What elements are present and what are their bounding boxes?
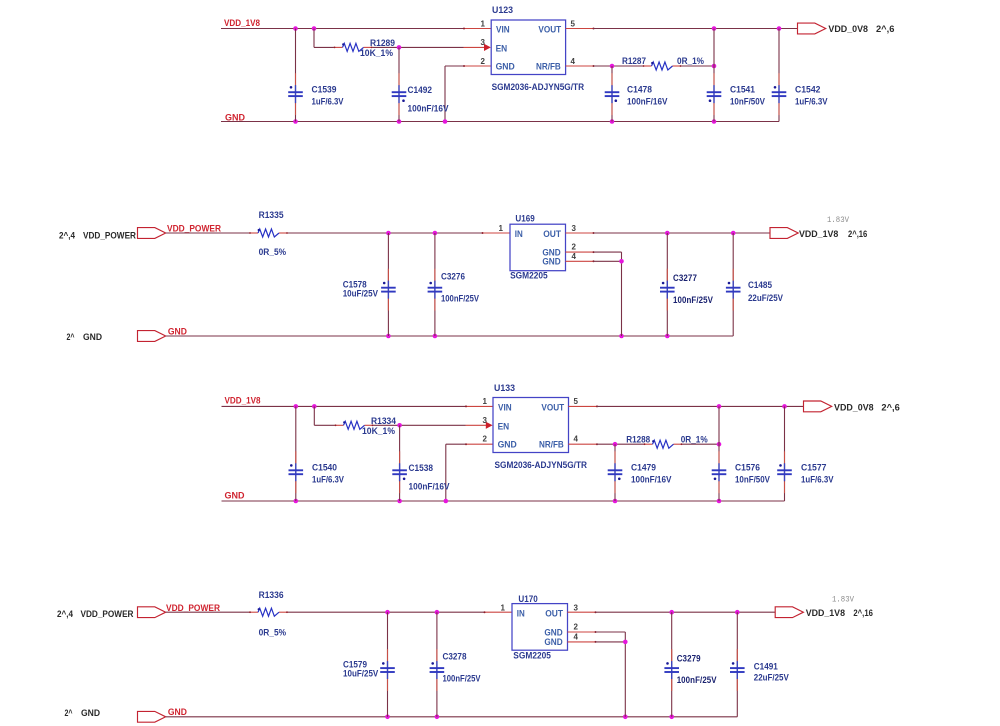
junction on GND rail: [386, 334, 391, 339]
svg-text:2^: 2^: [65, 708, 74, 718]
svg-text:OUT: OUT: [543, 229, 561, 240]
wire pin2 GND stub: [568, 631, 596, 633]
svg-text:3: 3: [483, 416, 488, 425]
wire net VDD_0V8: [597, 405, 804, 407]
svg-text:U123: U123: [492, 5, 513, 15]
wire C3278 vertical: [436, 612, 438, 717]
junction on GND rail: [293, 119, 298, 124]
svg-text:10nF/50V: 10nF/50V: [730, 97, 765, 107]
svg-text:C1479: C1479: [631, 463, 656, 473]
junction: [385, 610, 390, 615]
svg-text:GND: GND: [498, 440, 517, 451]
svg-text:VDD_1V8: VDD_1V8: [806, 608, 845, 618]
svg-text:C1478: C1478: [627, 85, 652, 95]
capacitor C1479 symbol: [608, 451, 623, 493]
svg-text:C1577: C1577: [801, 463, 827, 473]
svg-text:R1336: R1336: [259, 590, 284, 600]
svg-text:3: 3: [574, 603, 579, 612]
svg-text:C1492: C1492: [408, 85, 433, 95]
svg-text:0R_1%: 0R_1%: [677, 56, 704, 66]
svg-text:3: 3: [481, 38, 486, 47]
junction: [735, 610, 740, 615]
svg-text:100nF/16V: 100nF/16V: [408, 104, 449, 114]
wire C3279 vertical: [671, 612, 673, 717]
junction: [613, 442, 618, 447]
svg-text:VIN: VIN: [498, 403, 512, 414]
svg-text:VDD_1V8: VDD_1V8: [225, 396, 261, 406]
wire pin5 VOUT stub: [569, 405, 598, 407]
junction: [386, 231, 391, 236]
wire net VDD_1V8 top rail: [221, 28, 464, 30]
wire GND bottom rail: [222, 500, 785, 502]
svg-text:10K_1%: 10K_1%: [362, 426, 395, 436]
svg-text:2: 2: [572, 243, 577, 252]
junction on GND rail: [444, 499, 449, 504]
capacitor C1579 symbol: [380, 649, 395, 691]
junction: [312, 404, 317, 409]
wire pin2 GND stub of U133: [466, 443, 494, 445]
capacitor C1540 symbol: [289, 451, 304, 493]
svg-text:2^,4: 2^,4: [57, 609, 73, 619]
wire pin5 VOUT stub: [566, 28, 594, 30]
wire pin1 stub of U133: [466, 405, 494, 407]
svg-text:C1491: C1491: [754, 661, 778, 671]
svg-text:100nF/16V: 100nF/16V: [627, 97, 668, 107]
capacitor C3278 symbol: [430, 649, 445, 691]
capacitor C1577 symbol: [777, 451, 792, 493]
svg-text:1: 1: [499, 224, 504, 233]
svg-text:U169: U169: [515, 214, 534, 224]
capacitor C1542 symbol: [772, 73, 787, 115]
junction: [312, 26, 317, 31]
junction: [777, 26, 782, 31]
svg-text:0R_5%: 0R_5%: [259, 627, 287, 637]
svg-text:4: 4: [571, 57, 576, 66]
wire GND bottom rail: [166, 335, 733, 337]
svg-text:OUT: OUT: [545, 608, 563, 619]
junction on GND rail: [613, 499, 618, 504]
junction: [293, 26, 298, 31]
wire pin2 to corner: [594, 251, 622, 253]
svg-text:C3279: C3279: [677, 653, 701, 663]
svg-text:C1541: C1541: [730, 85, 755, 95]
svg-text:100nF/25V: 100nF/25V: [443, 673, 481, 683]
power port flag GND: [138, 331, 166, 342]
svg-text:100nF/25V: 100nF/25V: [441, 294, 479, 304]
wire R1288 to junction: [683, 443, 720, 445]
EN pin arrow: [486, 422, 493, 429]
svg-text:5: 5: [574, 397, 579, 406]
wire C1491 vertical: [736, 612, 738, 717]
wire R1287 to junction: [682, 65, 715, 67]
svg-text:4: 4: [574, 633, 579, 642]
capacitor C1492 symbol: [392, 73, 407, 115]
svg-text:2^,4: 2^,4: [59, 230, 75, 240]
junction: [712, 26, 717, 31]
capacitor C1485 symbol: [726, 269, 741, 311]
junction on GND rail: [385, 715, 390, 720]
wire R1336 to U170: [288, 611, 484, 613]
EN pin arrow: [484, 44, 491, 51]
junction on GND rail: [669, 715, 674, 720]
wire GND bottom rail: [166, 716, 738, 718]
wire pin4 GND stub: [568, 641, 596, 643]
svg-text:0R_5%: 0R_5%: [259, 247, 287, 257]
wire pin2 GND stub: [566, 251, 594, 253]
svg-text:2^: 2^: [67, 332, 76, 342]
wire C1485 vertical: [732, 233, 734, 336]
svg-text:R1287: R1287: [622, 56, 646, 66]
junction: [665, 231, 670, 236]
svg-text:R1335: R1335: [259, 210, 284, 220]
svg-text:SGM2205: SGM2205: [513, 650, 551, 660]
junction on GND rail: [435, 715, 440, 720]
svg-text:GND: GND: [542, 257, 560, 268]
wire R1289 to EN: [373, 46, 464, 48]
IC U169 body: [510, 224, 566, 271]
svg-text:100nF/16V: 100nF/16V: [409, 481, 450, 491]
svg-text:SGM2036-ADJYN5G/TR: SGM2036-ADJYN5G/TR: [495, 460, 588, 470]
svg-text:GND: GND: [225, 491, 246, 501]
wire ground drop: [445, 444, 447, 501]
svg-text:1: 1: [481, 19, 486, 28]
svg-text:C1538: C1538: [409, 463, 434, 473]
junction on GND rail: [717, 499, 722, 504]
svg-text:GND: GND: [81, 708, 100, 718]
svg-text:GND: GND: [225, 112, 246, 122]
resistor R1287 symbol: [643, 62, 682, 70]
svg-text:1uF/6.3V: 1uF/6.3V: [312, 474, 344, 484]
wire ground drop: [444, 66, 446, 122]
wire net VDD_1V8 out: [594, 232, 771, 234]
svg-text:4: 4: [574, 435, 579, 444]
svg-text:VDD_1V8: VDD_1V8: [799, 229, 838, 239]
wire pin1 stub of U170: [484, 611, 512, 613]
resistor R1334 symbol: [335, 421, 374, 429]
svg-text:VDD_0V8: VDD_0V8: [828, 24, 868, 34]
wire pin1 stub of U169: [482, 232, 510, 234]
wire NR/FB to R1288: [597, 443, 644, 445]
svg-text:C1576: C1576: [735, 463, 760, 473]
wire net VDD_0V8: [594, 28, 798, 30]
wire pin2 to corner: [596, 631, 626, 633]
svg-text:2: 2: [574, 622, 579, 631]
svg-text:100nF/25V: 100nF/25V: [677, 675, 717, 685]
wire net VDD_1V8 rail: [222, 405, 466, 407]
resistor R1289 symbol: [334, 43, 373, 51]
junction on GND rail: [294, 499, 299, 504]
svg-text:2^,6: 2^,6: [876, 24, 894, 34]
svg-text:U133: U133: [494, 383, 515, 393]
IC U123 body: [491, 20, 565, 75]
capacitor C1538 symbol: [392, 451, 407, 493]
svg-text:10uF/25V: 10uF/25V: [343, 669, 378, 679]
capacitor C3279 symbol: [664, 649, 679, 691]
wire pin1 stub of U123: [464, 28, 492, 30]
svg-text:4: 4: [572, 252, 577, 261]
wire R1334 to EN: [374, 424, 466, 426]
wire pin3 EN stub of U123: [464, 46, 485, 48]
svg-text:R1334: R1334: [371, 416, 396, 426]
svg-text:SGM2036-ADJYN5G/TR: SGM2036-ADJYN5G/TR: [492, 82, 585, 92]
svg-text:GND: GND: [496, 61, 515, 72]
wire pin3 OUT stub: [566, 232, 594, 234]
svg-text:0R_1%: 0R_1%: [681, 434, 708, 444]
resistor R1335 symbol: [249, 229, 288, 237]
junction: [610, 64, 615, 69]
svg-text:GND: GND: [544, 637, 562, 648]
svg-text:R1288: R1288: [626, 434, 650, 444]
power port flag VDD_0V8: [798, 23, 826, 34]
IC U170 body: [512, 604, 568, 651]
svg-text:1: 1: [501, 603, 506, 612]
wire to resistor R1334: [314, 424, 334, 426]
capacitor C3276 symbol: [428, 269, 443, 311]
svg-text:100nF/16V: 100nF/16V: [631, 475, 672, 485]
wire pin2 to ground vertical: [445, 65, 464, 67]
svg-text:C1540: C1540: [312, 463, 337, 473]
capacitor C1478 symbol: [605, 73, 620, 115]
wire C1579 vertical: [387, 612, 389, 717]
svg-text:IN: IN: [515, 229, 523, 240]
junction: [782, 404, 787, 409]
capacitor C1539 symbol: [288, 73, 303, 115]
wire pin3 EN stub of U133: [466, 424, 487, 426]
wire NR/FB to R1287: [594, 65, 643, 67]
wire C1478 vertical: [611, 66, 613, 122]
wire resistor branch vertical: [313, 406, 315, 425]
IC U133 body: [493, 398, 569, 453]
wire C3277 vertical: [666, 233, 668, 336]
svg-text:5: 5: [571, 19, 576, 28]
power port flag GND: [138, 711, 166, 722]
svg-text:C3276: C3276: [441, 271, 465, 281]
junction: [435, 610, 440, 615]
svg-text:22uF/25V: 22uF/25V: [754, 672, 789, 682]
wire net VDD_1V8 out: [596, 611, 776, 613]
wire pin4 GND stub: [566, 260, 594, 262]
svg-text:100nF/25V: 100nF/25V: [673, 295, 713, 305]
junction on GND rail: [397, 119, 402, 124]
svg-text:VDD_1V8: VDD_1V8: [224, 18, 260, 28]
wire C1541 vertical: [713, 29, 715, 122]
junction on GND rail: [397, 499, 402, 504]
wire R1335 to U169: [288, 232, 482, 234]
svg-text:U170: U170: [518, 594, 537, 604]
junction on GND rail: [619, 334, 624, 339]
svg-text:C1539: C1539: [312, 85, 337, 95]
wire C1576 vertical: [718, 406, 720, 501]
wire pin3 OUT stub: [568, 611, 596, 613]
wire ground drop: [624, 632, 626, 717]
wire C1540 vertical: [295, 406, 297, 501]
svg-text:1.83V: 1.83V: [827, 216, 849, 225]
junction: [397, 423, 402, 428]
wire C1577 vertical: [784, 406, 786, 501]
junction: [397, 45, 402, 50]
wire ground drop: [621, 252, 623, 336]
wire C1542 vertical: [778, 29, 780, 122]
svg-text:3: 3: [572, 224, 577, 233]
svg-text:VIN: VIN: [496, 25, 510, 36]
svg-text:EN: EN: [496, 43, 508, 54]
junction on GND rail: [623, 715, 628, 720]
capacitor C1578 symbol: [381, 269, 396, 311]
wire pin4 NR/FB stub: [569, 443, 598, 445]
junction: [623, 640, 628, 645]
svg-text:10K_1%: 10K_1%: [360, 48, 393, 58]
svg-text:VDD_POWER: VDD_POWER: [167, 223, 221, 233]
svg-text:2: 2: [481, 57, 486, 66]
svg-text:GND: GND: [168, 707, 187, 717]
wire pin4 to corner: [594, 260, 622, 262]
wire C1539 vertical: [295, 29, 297, 122]
wire GND bottom rail: [221, 121, 779, 123]
capacitor C1491 symbol: [730, 649, 745, 691]
svg-text:1.83V: 1.83V: [832, 596, 854, 605]
svg-text:2^,16: 2^,16: [848, 229, 867, 239]
wire to resistor R1289: [314, 46, 334, 48]
junction on GND rail: [665, 334, 670, 339]
svg-text:EN: EN: [498, 421, 510, 432]
junction on GND rail: [712, 119, 717, 124]
svg-text:1uF/6.3V: 1uF/6.3V: [801, 475, 834, 485]
junction: [717, 404, 722, 409]
wire net VDD_POWER: [166, 611, 249, 613]
wire C1578 vertical: [387, 233, 389, 336]
wire pin2 to ground vertical: [446, 443, 466, 445]
svg-text:VOUT: VOUT: [538, 25, 561, 36]
junction on GND rail: [610, 119, 615, 124]
power port flag VDD_0V8: [804, 401, 832, 412]
svg-text:C1485: C1485: [748, 280, 772, 290]
svg-text:1: 1: [483, 397, 488, 406]
svg-text:10uF/25V: 10uF/25V: [343, 289, 378, 299]
resistor R1336 symbol: [249, 608, 288, 616]
junction: [731, 231, 736, 236]
junction: [619, 259, 624, 264]
svg-text:10nF/50V: 10nF/50V: [735, 475, 770, 485]
capacitor C1541 symbol: [707, 73, 722, 115]
junction on GND rail: [443, 119, 448, 124]
svg-text:NR/FB: NR/FB: [536, 61, 561, 72]
svg-text:22uF/25V: 22uF/25V: [748, 293, 783, 303]
svg-text:1uF/6.3V: 1uF/6.3V: [795, 97, 828, 107]
svg-text:NR/FB: NR/FB: [539, 440, 564, 451]
svg-text:1uF/6.3V: 1uF/6.3V: [312, 96, 344, 106]
svg-text:2^,6: 2^,6: [881, 403, 899, 413]
svg-text:C3278: C3278: [443, 651, 467, 661]
svg-text:VOUT: VOUT: [541, 403, 564, 414]
wire pin4 to corner: [596, 641, 626, 643]
svg-text:VDD_POWER: VDD_POWER: [166, 603, 220, 613]
resistor R1288 symbol: [644, 440, 683, 448]
power port flag VDD_1V8: [775, 607, 803, 618]
svg-text:VDD_POWER: VDD_POWER: [83, 230, 136, 240]
svg-text:VDD_POWER: VDD_POWER: [81, 609, 134, 619]
svg-text:R1289: R1289: [370, 38, 395, 48]
wire resistor branch vertical: [313, 29, 315, 48]
svg-text:VDD_0V8: VDD_0V8: [834, 403, 874, 413]
wire C1538 vertical: [399, 425, 401, 501]
svg-text:C1542: C1542: [795, 85, 821, 95]
junction on GND rail: [433, 334, 438, 339]
svg-text:GND: GND: [168, 326, 187, 336]
svg-text:SGM2205: SGM2205: [510, 270, 548, 280]
junction: [717, 442, 722, 447]
svg-text:GND: GND: [83, 332, 102, 342]
power port flag VDD_1V8: [770, 228, 798, 239]
capacitor C3277 symbol: [660, 269, 675, 311]
svg-text:C3277: C3277: [673, 273, 697, 283]
junction: [433, 231, 438, 236]
svg-text:2^,16: 2^,16: [853, 608, 873, 618]
wire C1479 vertical: [614, 444, 616, 501]
junction: [712, 64, 717, 69]
svg-text:IN: IN: [517, 608, 525, 619]
power port flag VDD_POWER: [138, 607, 166, 618]
wire pin2 GND stub of U123: [464, 65, 492, 67]
capacitor C1576 symbol: [712, 451, 727, 493]
wire C1492 vertical: [398, 47, 400, 121]
wire C3276 vertical: [434, 233, 436, 336]
wire pin4 NR/FB stub: [566, 65, 594, 67]
junction: [294, 404, 299, 409]
svg-text:2: 2: [483, 435, 488, 444]
power port flag VDD_POWER: [138, 228, 166, 239]
junction: [669, 610, 674, 615]
wire net VDD_POWER: [166, 232, 249, 234]
